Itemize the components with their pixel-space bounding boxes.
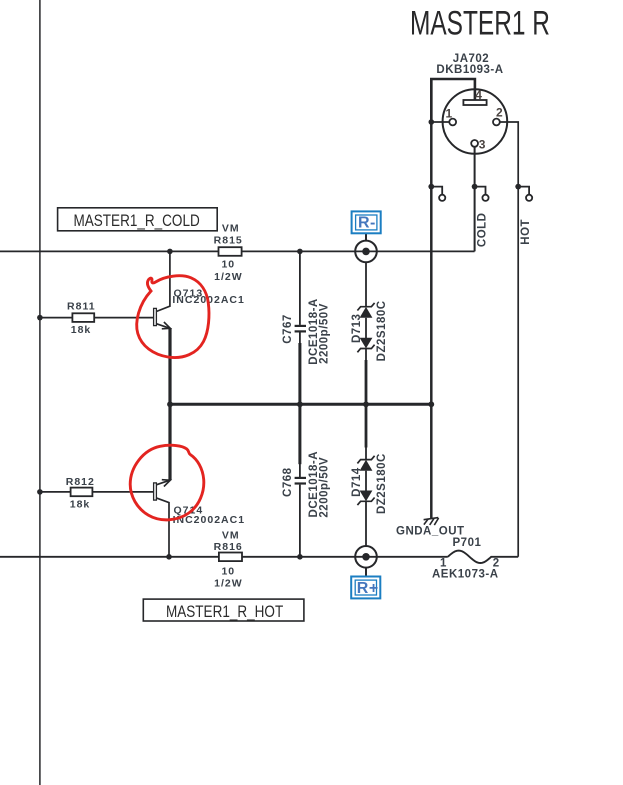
svg-text:R-: R-	[358, 215, 376, 232]
wire GNDA column (thick)	[430, 79, 433, 518]
svg-text:1: 1	[446, 107, 453, 121]
svg-text:R812: R812	[66, 476, 95, 488]
bottom triangle	[360, 338, 373, 349]
Q713 emitter with arrow	[156, 324, 170, 329]
bottom zener bar	[357, 498, 374, 506]
junction C767 top	[297, 249, 303, 255]
svg-text:18k: 18k	[70, 499, 91, 511]
wire left vertical bus	[39, 0, 41, 785]
ground GNDA_OUT	[424, 518, 439, 526]
connector JA702 label	[436, 53, 503, 76]
junction bus/D columns	[363, 401, 369, 407]
resistor R815	[219, 247, 242, 256]
svg-text:DZ2S180C: DZ2S180C	[376, 453, 388, 514]
diode D713 dual zener	[357, 262, 374, 404]
terminal stub on HOT column	[518, 187, 532, 201]
bottom zener bar	[357, 345, 374, 353]
svg-text:R811: R811	[67, 300, 96, 312]
svg-text:VM: VM	[222, 529, 240, 541]
svg-text:GNDA_OUT: GNDA_OUT	[396, 526, 465, 538]
diode D714 dual zener	[357, 404, 374, 546]
svg-text:DZ2S180C: DZ2S180C	[376, 300, 388, 361]
wire R+ label stub	[365, 568, 367, 577]
pin 3	[471, 140, 478, 147]
wire thick from XLR shell to pin1 column	[431, 79, 475, 122]
svg-text:MASTER1_R_HOT: MASTER1_R_HOT	[166, 603, 283, 622]
junction R812 on left bus	[37, 489, 43, 495]
terminal stub on GNDA column	[431, 187, 445, 201]
svg-text:C768: C768	[282, 467, 294, 497]
transistor Q714	[154, 404, 171, 557]
Q713 base bar	[154, 308, 157, 325]
svg-text:10: 10	[221, 258, 235, 270]
resistor R812	[40, 491, 154, 493]
svg-text:COLD: COLD	[477, 213, 489, 248]
Q714 base bar	[154, 483, 157, 500]
svg-text:2200p/50V: 2200p/50V	[319, 457, 331, 518]
label MASTER1_R_HOT box	[143, 599, 304, 621]
junction Q714 collector / row HOT	[166, 554, 172, 560]
junction bus/C columns	[297, 401, 303, 407]
svg-text:MASTER1 R: MASTER1 R	[410, 4, 550, 42]
node R+ label box	[351, 577, 380, 599]
svg-text:3: 3	[479, 138, 486, 152]
node R- test point	[355, 241, 377, 263]
svg-text:R+: R+	[357, 580, 379, 597]
connector P701	[448, 551, 518, 563]
terminal stub on COLD column	[475, 187, 489, 201]
wire emitter bus (thick)	[170, 403, 431, 406]
resistor R811	[40, 317, 154, 319]
svg-text:R816: R816	[214, 541, 243, 553]
node R+ test point	[355, 546, 377, 568]
svg-text:2200p/50V: 2200p/50V	[319, 303, 331, 364]
svg-text:D714: D714	[351, 467, 363, 497]
label MASTER1_R_COLD box	[58, 208, 218, 231]
wire pin2 to HOT column	[500, 122, 518, 557]
svg-text:MASTER1_R_COLD: MASTER1_R_COLD	[74, 212, 200, 231]
Q714 emitter with arrow	[156, 480, 170, 485]
node R- label box	[352, 211, 381, 233]
top zener bar	[357, 303, 374, 311]
pin 2	[493, 119, 500, 126]
wire row HOT y=556.8	[0, 556, 448, 558]
annotation red circle around Q713	[137, 276, 209, 358]
junction bus/GNDA column	[428, 401, 434, 407]
resistor R816	[219, 553, 242, 562]
svg-text:1/2W: 1/2W	[214, 271, 243, 283]
Q713 emitter thick wire to bus	[168, 328, 171, 404]
bottom triangle	[360, 491, 373, 502]
top triangle	[360, 460, 373, 471]
svg-text:VM: VM	[222, 222, 240, 234]
pin 1	[449, 119, 456, 126]
wire row COLD y=251.4	[0, 250, 475, 252]
capacitor C768	[295, 404, 306, 557]
svg-text:HOT: HOT	[520, 219, 532, 245]
svg-text:4: 4	[475, 88, 482, 102]
top triangle	[360, 307, 373, 318]
wire pin3 COLD column	[474, 147, 476, 252]
junction bus/transistor column	[167, 401, 173, 407]
svg-text:10: 10	[221, 565, 235, 577]
pin 4 terminal	[463, 100, 486, 105]
title MASTER1 R	[410, 4, 550, 42]
svg-text:D713: D713	[351, 314, 363, 344]
junction R811 on left bus	[37, 315, 43, 321]
svg-text:DKB1093-A: DKB1093-A	[436, 64, 503, 76]
capacitor C767	[295, 251, 306, 404]
svg-text:C767: C767	[282, 314, 294, 344]
node HOT label	[520, 219, 532, 245]
svg-text:18k: 18k	[71, 324, 92, 336]
Q713 collector wire	[156, 251, 170, 311]
Q714 emitter thick wire from bus	[168, 404, 171, 480]
annotation red circle around Q714	[130, 445, 204, 520]
wire R- label stub	[365, 233, 367, 240]
transistor Q713	[154, 251, 171, 404]
node COLD label	[477, 213, 489, 248]
junction pin1/shell	[429, 119, 435, 125]
junction C768 bottom	[297, 554, 303, 560]
connector XLR body JA702	[443, 89, 508, 154]
junction Q713 collector / row COLD	[167, 249, 173, 255]
wire pin1 to shell column	[431, 121, 449, 123]
svg-text:2: 2	[496, 106, 503, 120]
svg-text:1/2W: 1/2W	[214, 578, 243, 590]
svg-text:R815: R815	[214, 235, 243, 247]
svg-text:P701: P701	[453, 537, 482, 549]
top zener bar	[357, 456, 374, 464]
Q714 collector wire	[156, 498, 169, 557]
svg-text:AEK1073-A: AEK1073-A	[432, 569, 499, 581]
